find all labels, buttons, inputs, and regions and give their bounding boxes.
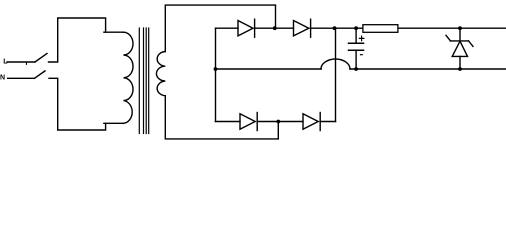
wire fuse to right edge [398, 27, 506, 29]
zener D5 bar right bend [469, 41, 474, 47]
wire middle rail right [350, 68, 506, 70]
wire primary top entry [104, 31, 124, 33]
transformer T1 secondary winding [156, 52, 165, 96]
transformer core [138, 28, 140, 134]
node zener bottom dot [458, 67, 462, 71]
contact tick on L wire [26, 63, 28, 65]
capacitor C1 plus sign [359, 36, 364, 41]
node capacitor bottom dot [354, 67, 358, 71]
diode D4 [303, 114, 318, 129]
wire S2 fixed contact to primary bottom [49, 78, 106, 130]
wire capacitor bottom lead [355, 51, 357, 69]
wire zener bottom lead [459, 56, 461, 69]
wire S1 fixed contact to primary top [49, 18, 106, 62]
wire hop over positive vertical [321, 59, 350, 69]
switch S1 blade (L) [35, 54, 47, 63]
wire D2 to fuse [311, 27, 363, 29]
node negative tap dot [214, 67, 218, 71]
node zener top dot [458, 26, 462, 30]
wire N input [8, 77, 35, 79]
wire bottom row left [216, 121, 241, 123]
svg-text:N: N [0, 74, 5, 81]
wire D3 to D4 [257, 121, 303, 123]
node AC- junction dot [276, 120, 280, 124]
wire secondary top to bridge [165, 5, 275, 51]
wire capacitor top lead [355, 28, 357, 42]
wire middle rail left [216, 68, 322, 70]
switch S2 blade (N) [35, 71, 46, 78]
wire primary bottom entry [104, 122, 124, 124]
wire D1 to D2 [255, 27, 294, 29]
capacitor C1 plates [349, 42, 364, 44]
diode D3 [240, 114, 255, 129]
fuse F1 [363, 25, 398, 33]
wire bridge left vertical [215, 28, 217, 121]
zener D5 bar left bend [446, 35, 451, 41]
wire positive vertical [335, 28, 337, 121]
node AC+ junction dot [273, 26, 277, 30]
wire D4 to positive vertical [320, 121, 335, 123]
diode D1 [238, 21, 253, 36]
wire secondary bottom to bridge [165, 96, 278, 139]
node V+ junction dot [333, 26, 337, 30]
zener D5 cathode bar [451, 40, 469, 42]
transformer T1 primary winding [124, 32, 134, 123]
wire L input [7, 61, 35, 63]
wire top row left [216, 27, 239, 29]
capacitor C1 minus mark [361, 54, 363, 56]
wire zener top lead [459, 28, 461, 41]
diode D2 [294, 21, 309, 36]
zener D5 triangle [452, 41, 467, 56]
node capacitor tap dot [354, 26, 358, 30]
